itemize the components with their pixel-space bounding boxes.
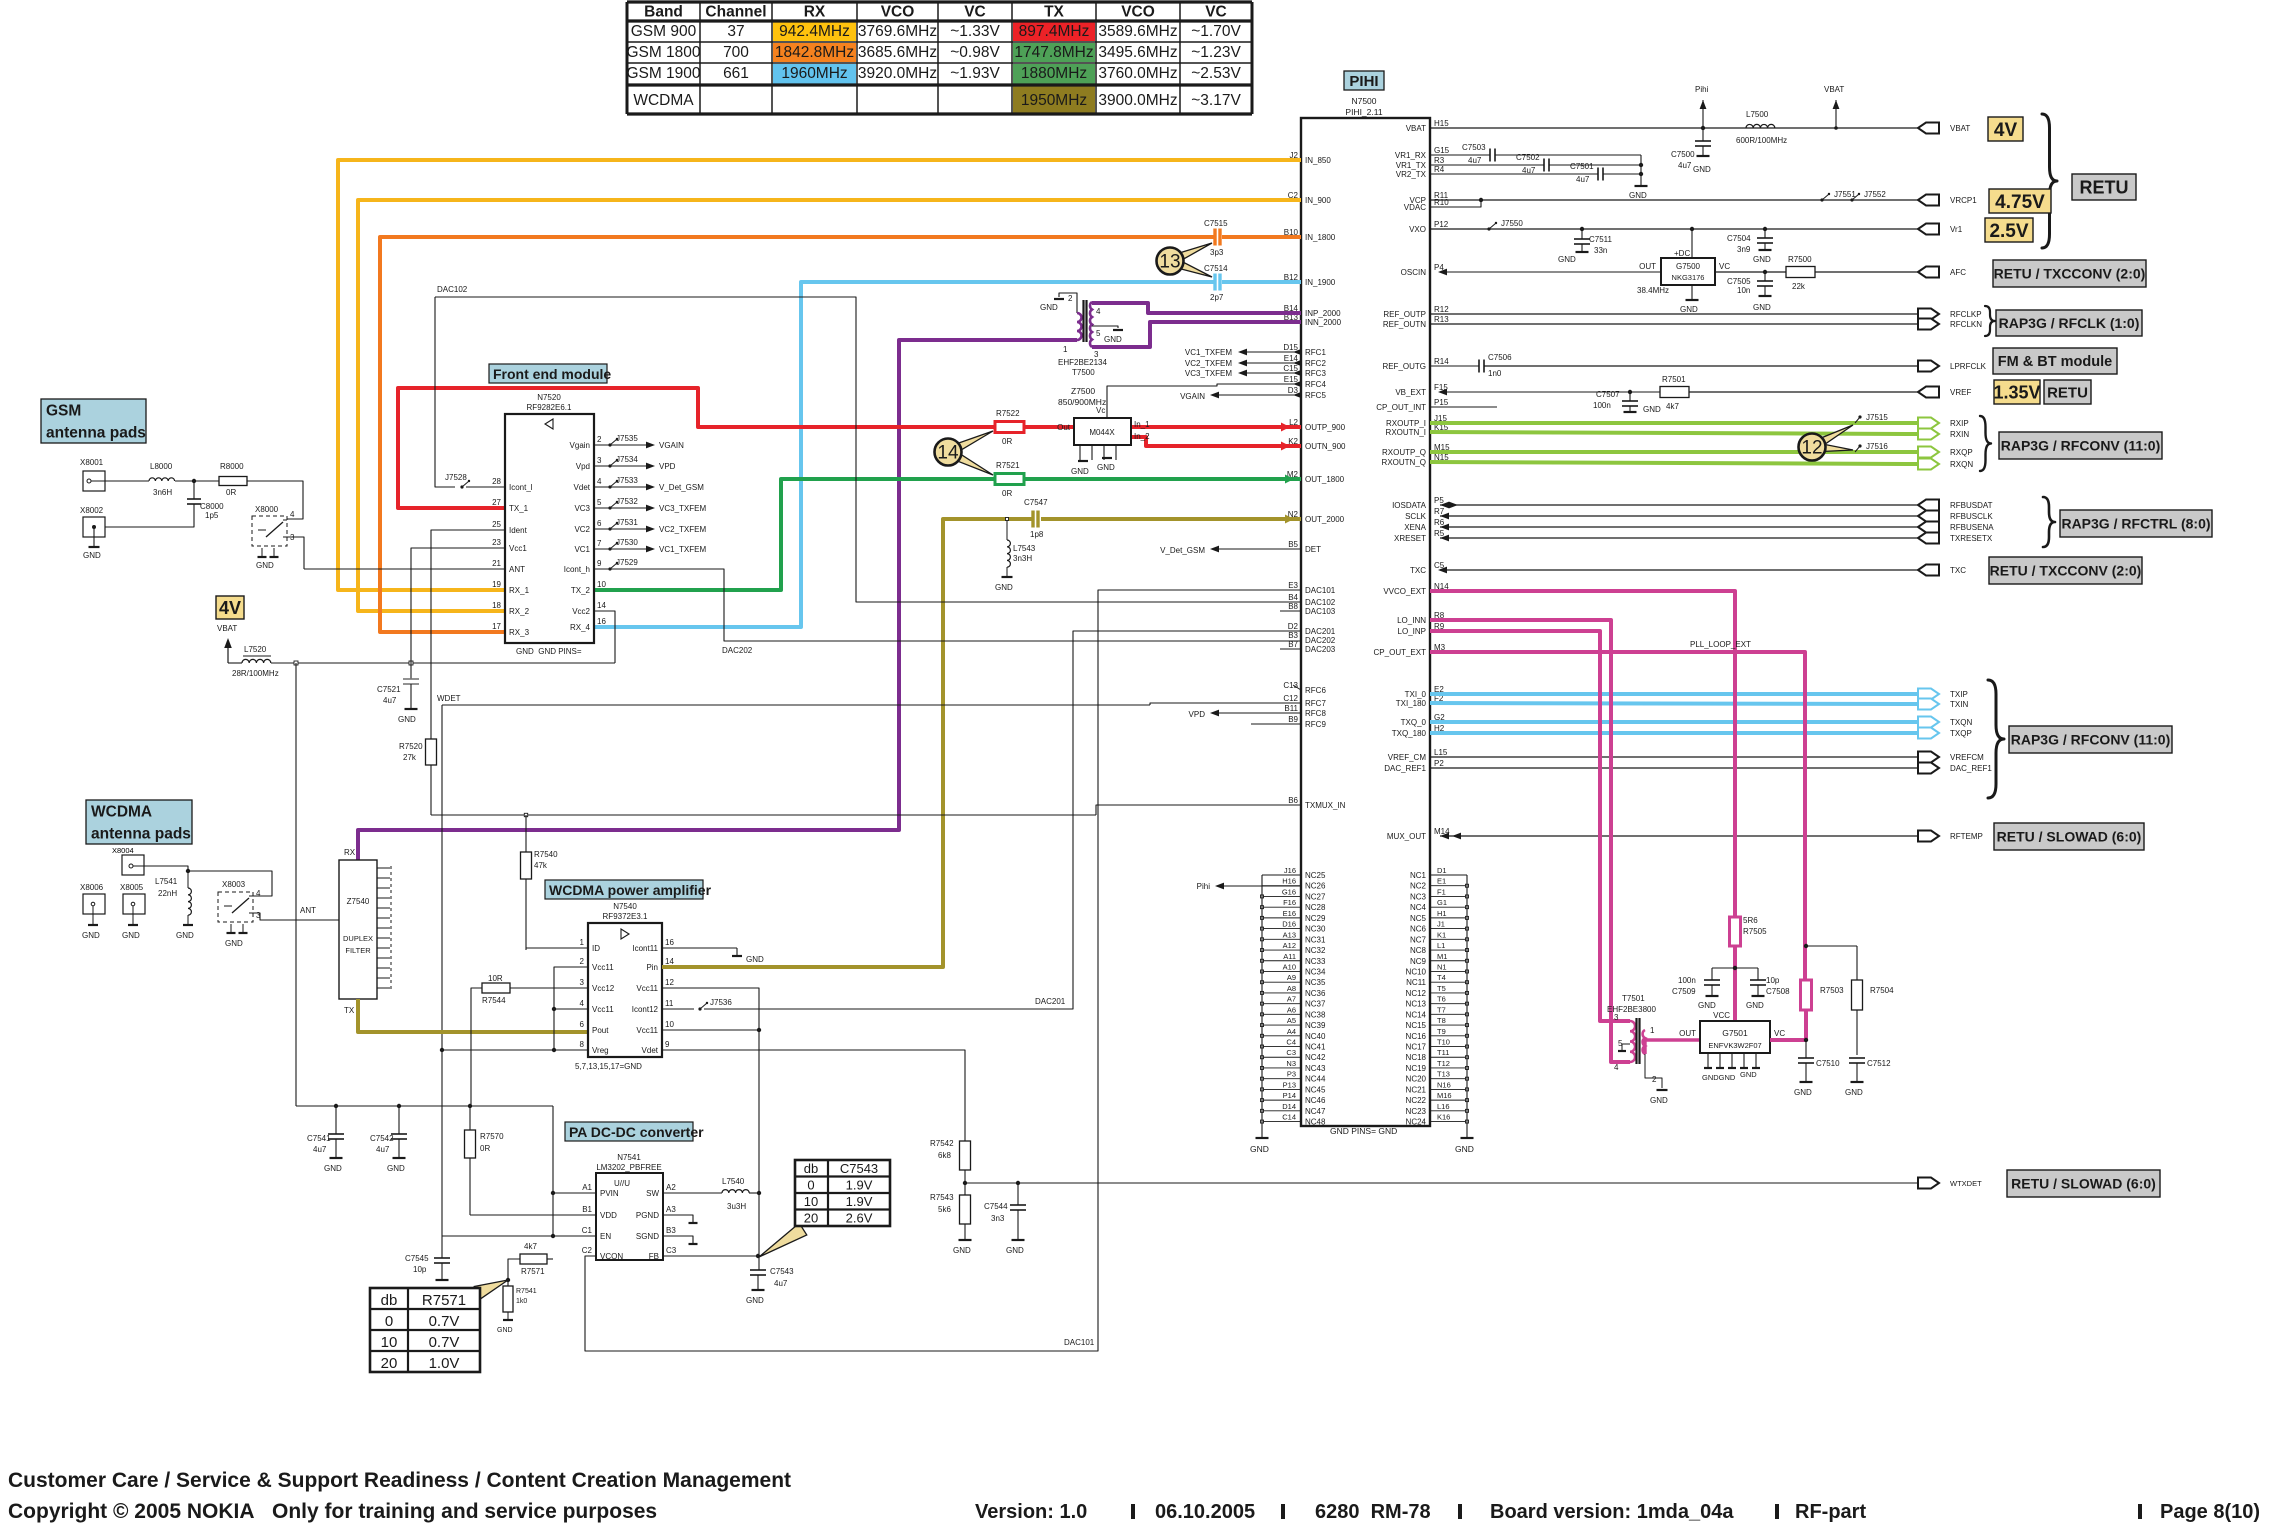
svg-text:Version: 1.0: Version: 1.0 <box>975 1501 1087 1523</box>
svg-text:OUT: OUT <box>1679 1029 1696 1038</box>
svg-text:IN_1800: IN_1800 <box>1305 233 1336 242</box>
stub DAC203 <box>1280 648 1301 650</box>
svg-text:9: 9 <box>665 1040 670 1049</box>
svg-text:GND: GND <box>1740 1070 1757 1079</box>
capacitor C7511 <box>1558 227 1613 264</box>
svg-text:J7536: J7536 <box>710 998 732 1007</box>
wire VC pink <box>1770 1010 1806 1040</box>
svg-text:NC1: NC1 <box>1410 871 1427 880</box>
pad X8001 <box>80 458 149 491</box>
svg-text:NC47: NC47 <box>1305 1107 1326 1116</box>
wire WDET / RFC7 <box>437 694 1301 1236</box>
N7520 left pins <box>492 477 533 637</box>
svg-text:WCDMA power amplifier: WCDMA power amplifier <box>549 882 712 898</box>
note 13 callout <box>1157 243 1213 277</box>
svg-text:Pihi: Pihi <box>1197 882 1211 891</box>
stub RFC6 tick <box>1293 685 1301 690</box>
svg-text:K1: K1 <box>1437 930 1446 939</box>
svg-text:db: db <box>381 1292 398 1309</box>
svg-text:E3: E3 <box>1288 581 1298 590</box>
svg-text:Channel: Channel <box>705 4 766 21</box>
svg-text:OUTP_900: OUTP_900 <box>1305 423 1346 432</box>
svg-text:1n0: 1n0 <box>1488 369 1502 378</box>
svg-text:B1: B1 <box>582 1205 592 1214</box>
resistor R7501 4k7 <box>1438 375 1918 411</box>
svg-text:20: 20 <box>804 1211 818 1226</box>
svg-text:M1: M1 <box>1437 952 1447 961</box>
svg-text:SW: SW <box>646 1189 659 1198</box>
note 14 callout <box>935 431 994 475</box>
wire Ident down <box>431 530 505 739</box>
inductor L7500 <box>1736 110 1787 145</box>
svg-text:4k7: 4k7 <box>1666 402 1679 411</box>
transformer T7500 EHF2BE2134 <box>1040 293 1123 377</box>
svg-text:D15: D15 <box>1283 343 1298 352</box>
oscillator G7500 NKG3176 <box>1637 227 1730 314</box>
svg-text:A5: A5 <box>1287 1016 1296 1025</box>
svg-text:RETU / SLOWAD (6:0): RETU / SLOWAD (6:0) <box>2011 1176 2156 1192</box>
svg-text:DAC203: DAC203 <box>1305 645 1336 654</box>
svg-text:GND: GND <box>1693 165 1711 174</box>
svg-text:FB: FB <box>649 1252 659 1261</box>
svg-text:FILTER: FILTER <box>345 946 371 955</box>
inductor L7543 3n3H <box>995 518 1036 593</box>
svg-text:NC18: NC18 <box>1406 1053 1427 1062</box>
svg-text:GND: GND <box>82 931 100 940</box>
svg-text:L15: L15 <box>1434 748 1448 757</box>
connector AFC <box>1918 267 1966 278</box>
capacitor C7506 <box>1430 353 1918 378</box>
svg-text:Out: Out <box>1057 423 1071 432</box>
svg-text:PIHI_2.11: PIHI_2.11 <box>1345 107 1382 117</box>
svg-text:100n: 100n <box>1678 976 1696 985</box>
connector VRCP1 <box>1430 190 1977 206</box>
svg-text:NC6: NC6 <box>1410 925 1427 934</box>
svg-text:M16: M16 <box>1437 1091 1452 1100</box>
svg-text:K16: K16 <box>1437 1113 1450 1122</box>
svg-text:GND: GND <box>398 715 416 724</box>
svg-text:TXIP: TXIP <box>1950 690 1968 699</box>
capacitor C7545 10p <box>405 1236 450 1295</box>
svg-text:NC3: NC3 <box>1410 892 1427 901</box>
label RAP3G / RFCTRL (8:0) <box>2060 510 2212 537</box>
svg-text:GND: GND <box>1650 1096 1668 1105</box>
svg-text:DUPLEX: DUPLEX <box>343 934 373 943</box>
svg-text:RXIP: RXIP <box>1950 419 1969 428</box>
wire purple T7500 to duplexer RX <box>358 340 1077 860</box>
svg-text:R8000: R8000 <box>220 462 244 471</box>
svg-text:NC40: NC40 <box>1305 1032 1326 1041</box>
svg-text:25: 25 <box>492 520 501 529</box>
value box 4V <box>1988 117 2023 141</box>
svg-text:GND: GND <box>83 551 101 560</box>
svg-text:RFC1: RFC1 <box>1305 348 1326 357</box>
wire DAC202 net <box>594 569 1301 655</box>
wire RXOUTN_I <box>1430 432 1918 434</box>
frequency table <box>626 2 1252 114</box>
svg-text:REF_OUTG: REF_OUTG <box>1382 362 1426 371</box>
wire Vreg <box>440 1048 588 1052</box>
svg-text:ID: ID <box>592 944 600 953</box>
svg-text:10: 10 <box>665 1020 674 1029</box>
capacitor C7507 <box>1593 390 1661 414</box>
capacitor C7501 <box>1430 155 1648 200</box>
table db R7571 <box>370 1280 508 1372</box>
gnd PGND <box>663 1215 698 1223</box>
svg-text:Ident: Ident <box>509 526 528 535</box>
label WCDMA antenna pads <box>86 800 192 844</box>
svg-text:T10: T10 <box>1437 1038 1450 1047</box>
wire R7520 bottom rail <box>431 805 1301 817</box>
svg-text:1p8: 1p8 <box>1030 530 1044 539</box>
svg-text:0.7V: 0.7V <box>429 1334 460 1351</box>
svg-text:X8006: X8006 <box>80 883 104 892</box>
svg-text:6: 6 <box>597 519 602 528</box>
svg-text:~2.53V: ~2.53V <box>1191 65 1241 82</box>
vco G7501 ENFVK3W2F07 <box>1679 1021 1785 1082</box>
label Front end module <box>489 364 611 383</box>
svg-text:A10: A10 <box>1283 962 1296 971</box>
N7520 right pins <box>564 435 607 632</box>
svg-text:2: 2 <box>1652 1075 1657 1084</box>
wire PVIN <box>553 1192 596 1194</box>
svg-text:GND: GND <box>1680 305 1698 314</box>
svg-text:NC45: NC45 <box>1305 1085 1326 1094</box>
svg-text:X8000: X8000 <box>255 505 279 514</box>
IC N7500 PIHI_2.11 <box>1301 96 1430 1126</box>
svg-text:A1: A1 <box>582 1183 592 1192</box>
svg-text:DAC201: DAC201 <box>1305 627 1336 636</box>
svg-text:Vcc11: Vcc11 <box>592 1005 614 1014</box>
svg-text:VPD: VPD <box>1189 710 1206 719</box>
svg-text:TX: TX <box>1044 4 1064 21</box>
PIHI left pin labels <box>1283 151 1346 810</box>
svg-text:C3: C3 <box>1286 1048 1296 1057</box>
svg-text:GND: GND <box>1097 463 1115 472</box>
svg-text:R7: R7 <box>1434 507 1445 516</box>
svg-text:C7510: C7510 <box>1816 1059 1840 1068</box>
svg-text:Page 8(10): Page 8(10) <box>2160 1501 2260 1523</box>
resistor R7571 4k7 <box>506 1242 553 1286</box>
svg-text:VCO: VCO <box>881 4 915 21</box>
svg-text:T8: T8 <box>1437 1016 1446 1025</box>
svg-text:VC1: VC1 <box>574 545 590 554</box>
label FM & BT module <box>1993 348 2117 374</box>
svg-text:NC48: NC48 <box>1305 1118 1326 1127</box>
svg-text:CP_OUT_INT: CP_OUT_INT <box>1376 403 1426 412</box>
svg-text:GND: GND <box>497 1327 513 1334</box>
svg-text:4u7: 4u7 <box>774 1279 788 1288</box>
svg-text:L7540: L7540 <box>722 1177 745 1186</box>
wire CP_OUT_EXT pink <box>1430 652 1805 980</box>
svg-text:C7515: C7515 <box>1204 219 1228 228</box>
svg-text:VRCP1: VRCP1 <box>1950 196 1977 205</box>
table db C7543 <box>759 1160 890 1257</box>
resistor R7543 5k6 <box>930 1183 972 1255</box>
svg-text:V_Det_GSM: V_Det_GSM <box>659 483 704 492</box>
svg-text:NC10: NC10 <box>1406 967 1427 976</box>
svg-text:3: 3 <box>1614 1013 1619 1022</box>
svg-text:TXIN: TXIN <box>1950 700 1968 709</box>
svg-text:897.4MHz: 897.4MHz <box>1019 23 1090 40</box>
svg-text:RFC2: RFC2 <box>1305 359 1326 368</box>
svg-text:T7500: T7500 <box>1072 368 1095 377</box>
svg-text:DET: DET <box>1305 545 1321 554</box>
svg-text:NC4: NC4 <box>1410 903 1427 912</box>
svg-text:VB_EXT: VB_EXT <box>1395 388 1426 397</box>
svg-text:GND: GND <box>1250 1144 1269 1154</box>
svg-text:2.5V: 2.5V <box>1989 221 2028 242</box>
note 12 callout <box>1799 425 1854 461</box>
svg-text:P14: P14 <box>1283 1091 1296 1100</box>
svg-text:OUTN_900: OUTN_900 <box>1305 442 1346 451</box>
svg-text:P5: P5 <box>1434 496 1444 505</box>
svg-text:RFC6: RFC6 <box>1305 686 1326 695</box>
svg-text:G7501: G7501 <box>1722 1028 1748 1038</box>
svg-text:1p5: 1p5 <box>205 511 219 520</box>
resistor R7544 10R <box>471 974 588 1106</box>
capacitor C7504 <box>1727 227 1773 264</box>
wire INP_2000 purple <box>1092 303 1301 313</box>
capacitor C7515 <box>1204 219 1228 257</box>
svg-text:NC5: NC5 <box>1410 914 1427 923</box>
value box 4.75V <box>1989 189 2051 213</box>
svg-text:TXQ_0: TXQ_0 <box>1401 718 1427 727</box>
svg-text:INN_2000: INN_2000 <box>1305 318 1342 327</box>
svg-text:22nH: 22nH <box>158 889 177 898</box>
wire LO_INN pink <box>1430 620 1630 1062</box>
svg-text:RF-part: RF-part <box>1795 1501 1866 1523</box>
svg-text:661: 661 <box>723 65 749 82</box>
VBAT stub up <box>1824 85 1844 130</box>
svg-text:X8005: X8005 <box>120 883 144 892</box>
svg-text:ENFVK3W2F07: ENFVK3W2F07 <box>1708 1041 1761 1050</box>
wire WTXDET <box>965 1182 1918 1184</box>
svg-text:1.9V: 1.9V <box>846 1178 873 1193</box>
svg-text:WTXDET: WTXDET <box>1950 1179 1982 1188</box>
svg-text:FM & BT module: FM & BT module <box>1998 354 2112 370</box>
svg-text:DAC103: DAC103 <box>1305 607 1336 616</box>
svg-text:RFBUSENA: RFBUSENA <box>1950 523 1994 532</box>
switch X8000 <box>252 505 304 570</box>
svg-text:LPRFCLK: LPRFCLK <box>1950 362 1987 371</box>
svg-text:C3: C3 <box>666 1246 677 1255</box>
svg-text:RXOUTN_I: RXOUTN_I <box>1386 428 1426 437</box>
svg-text:NC43: NC43 <box>1305 1064 1326 1073</box>
svg-text:X8003: X8003 <box>222 880 246 889</box>
svg-text:XRESET: XRESET <box>1394 534 1426 543</box>
svg-text:4.75V: 4.75V <box>1995 192 2045 213</box>
resistor R7505 5R6 <box>1730 916 1768 946</box>
svg-text:LM3202_PBFREE: LM3202_PBFREE <box>596 1163 661 1172</box>
svg-text:2p7: 2p7 <box>1210 293 1224 302</box>
svg-text:VXO: VXO <box>1409 225 1426 234</box>
svg-text:GSM: GSM <box>46 403 81 420</box>
svg-text:GNDGND: GNDGND <box>1702 1073 1736 1082</box>
capacitor C7544 3n3 <box>984 1181 1026 1255</box>
svg-text:F1: F1 <box>1437 887 1446 896</box>
svg-text:Vr1: Vr1 <box>1950 225 1963 234</box>
label RETU / TXCCONV (2:0) <box>1993 260 2146 287</box>
svg-text:4u7: 4u7 <box>1576 175 1590 184</box>
wire Pin14 olive <box>662 965 943 969</box>
inductor L7541 22nH <box>155 871 194 940</box>
svg-text:3n3: 3n3 <box>991 1214 1005 1223</box>
svg-text:0R: 0R <box>1002 437 1012 446</box>
label RETU <box>2072 174 2136 200</box>
svg-text:C14: C14 <box>1282 1113 1296 1122</box>
svg-text:RXQP: RXQP <box>1950 448 1973 457</box>
svg-text:antenna pads: antenna pads <box>46 425 146 442</box>
svg-text:NC44: NC44 <box>1305 1075 1326 1084</box>
gnd Icont11 <box>662 948 764 964</box>
wire VDAC to VCP <box>1430 198 1483 207</box>
svg-text:27k: 27k <box>403 753 417 762</box>
svg-text:VC: VC <box>964 4 986 21</box>
svg-text:NC24: NC24 <box>1406 1118 1427 1127</box>
wire OUT_2000 olive <box>662 515 1301 968</box>
svg-text:TXI_180: TXI_180 <box>1396 699 1427 708</box>
svg-text:6: 6 <box>580 1020 585 1029</box>
svg-text:5k6: 5k6 <box>938 1205 951 1214</box>
svg-text:R14: R14 <box>1434 357 1449 366</box>
wire DAC102 net <box>435 285 1301 602</box>
svg-text:D1: D1 <box>1437 866 1447 875</box>
svg-text:T4: T4 <box>1437 973 1446 982</box>
svg-text:12: 12 <box>1801 438 1822 459</box>
svg-text:VR1_TX: VR1_TX <box>1396 161 1427 170</box>
svg-text:C7542: C7542 <box>370 1134 394 1143</box>
svg-text:~1.70V: ~1.70V <box>1191 23 1241 40</box>
svg-text:RXQN: RXQN <box>1950 460 1973 469</box>
svg-text:J7550: J7550 <box>1501 219 1523 228</box>
svg-text:C7544: C7544 <box>984 1202 1008 1211</box>
svg-text:RAP3G / RFCONV (11:0): RAP3G / RFCONV (11:0) <box>2011 732 2170 748</box>
wire TXQ_0 <box>1430 720 1918 724</box>
svg-text:N3: N3 <box>1286 1059 1296 1068</box>
wire RXOUTN_Q <box>1430 462 1918 464</box>
svg-text:VC3_TXFEM: VC3_TXFEM <box>659 504 706 513</box>
svg-text:RFC8: RFC8 <box>1305 709 1326 718</box>
svg-text:3920.0MHz: 3920.0MHz <box>858 65 937 82</box>
svg-text:VCON: VCON <box>600 1252 623 1261</box>
svg-text:R7544: R7544 <box>482 996 506 1005</box>
svg-text:VC1_TXFEM: VC1_TXFEM <box>1185 348 1232 357</box>
caps C7509 C7508 rail <box>1672 966 1790 1020</box>
connector LPRFCLK <box>1918 361 1987 372</box>
svg-text:12: 12 <box>665 978 674 987</box>
svg-text:VREF_CM: VREF_CM <box>1388 753 1427 762</box>
svg-text:2: 2 <box>580 957 585 966</box>
svg-text:NC32: NC32 <box>1305 946 1326 955</box>
svg-text:J1: J1 <box>1437 920 1445 929</box>
svg-text:IN_850: IN_850 <box>1305 156 1331 165</box>
svg-text:3n3H: 3n3H <box>1013 554 1032 563</box>
wire Vcc11-12 down <box>662 988 759 1193</box>
svg-text:RETU / SLOWAD (6:0): RETU / SLOWAD (6:0) <box>1997 829 2142 845</box>
svg-text:C7500: C7500 <box>1671 150 1695 159</box>
svg-text:33n: 33n <box>1594 246 1607 255</box>
svg-text:10: 10 <box>597 580 606 589</box>
svg-text:NC38: NC38 <box>1305 1010 1326 1019</box>
svg-text:IN_1900: IN_1900 <box>1305 278 1336 287</box>
svg-text:37: 37 <box>727 23 744 40</box>
svg-text:F16: F16 <box>1283 898 1296 907</box>
svg-text:3760.0MHz: 3760.0MHz <box>1098 65 1177 82</box>
wire RXOUTP_Q <box>1430 450 1918 454</box>
svg-text:RFBUSDAT: RFBUSDAT <box>1950 501 1993 510</box>
svg-text:R6: R6 <box>1434 518 1445 527</box>
svg-text:V_Det_GSM: V_Det_GSM <box>1160 546 1205 555</box>
svg-text:RX_4: RX_4 <box>570 623 591 632</box>
svg-text:VREFCM: VREFCM <box>1950 753 1984 762</box>
svg-text:3n9: 3n9 <box>1737 245 1751 254</box>
svg-text:VC1_TXFEM: VC1_TXFEM <box>659 545 706 554</box>
svg-text:Vcc2: Vcc2 <box>572 607 590 616</box>
svg-text:NC12: NC12 <box>1406 989 1427 998</box>
svg-text:DAC101: DAC101 <box>1064 1338 1095 1347</box>
svg-text:3685.6MHz: 3685.6MHz <box>858 44 937 61</box>
svg-text:RETU / TXCCONV (2:0): RETU / TXCCONV (2:0) <box>1990 563 2142 579</box>
svg-text:C2: C2 <box>582 1246 593 1255</box>
svg-text:RF9282E6.1: RF9282E6.1 <box>527 403 572 412</box>
svg-text:J7551: J7551 <box>1834 190 1856 199</box>
svg-text:GSM 1800: GSM 1800 <box>626 44 700 61</box>
svg-text:17: 17 <box>492 622 501 631</box>
svg-text:6280 RM-78: 6280 RM-78 <box>1315 1501 1431 1523</box>
svg-text:Vcc12: Vcc12 <box>592 984 615 993</box>
svg-text:Vdet: Vdet <box>642 1046 659 1055</box>
svg-text:L7543: L7543 <box>1013 544 1036 553</box>
svg-text:C15: C15 <box>1283 364 1298 373</box>
svg-text:GND: GND <box>995 583 1013 592</box>
svg-text:RFCLKN: RFCLKN <box>1950 320 1982 329</box>
Pihi arrow at NC26 <box>1197 882 1301 891</box>
svg-text:AFC: AFC <box>1950 268 1966 277</box>
svg-text:RFBUSCLK: RFBUSCLK <box>1950 512 1993 521</box>
svg-text:DAC102: DAC102 <box>1305 598 1336 607</box>
svg-text:DAC201: DAC201 <box>1035 997 1066 1006</box>
arrow VPD (RFC8) <box>1189 710 1301 719</box>
wire Vdet <box>662 1050 965 1141</box>
svg-text:47k: 47k <box>534 861 548 870</box>
svg-text:C12: C12 <box>1283 694 1298 703</box>
svg-text:RXOUTN_Q: RXOUTN_Q <box>1382 458 1426 467</box>
svg-text:N7520: N7520 <box>537 393 561 402</box>
svg-text:antenna pads: antenna pads <box>91 826 191 843</box>
capacitor C7512 <box>1845 1058 1891 1097</box>
svg-text:1.0V: 1.0V <box>429 1355 460 1372</box>
svg-text:RFTEMP: RFTEMP <box>1950 832 1983 841</box>
svg-text:0R: 0R <box>1002 489 1012 498</box>
svg-text:R7570: R7570 <box>480 1132 504 1141</box>
svg-text:B11: B11 <box>1284 704 1298 713</box>
wire EN <box>442 1235 596 1237</box>
wire IN_850 yellow <box>338 160 1301 590</box>
svg-text:SGND: SGND <box>636 1232 659 1241</box>
svg-text:Vpd: Vpd <box>576 462 590 471</box>
svg-text:DAC101: DAC101 <box>1305 586 1336 595</box>
svg-text:NC14: NC14 <box>1406 1010 1427 1019</box>
svg-text:J7534: J7534 <box>616 455 638 464</box>
svg-text:INP_2000: INP_2000 <box>1305 309 1341 318</box>
arrow V_Det_GSM <box>1160 546 1301 555</box>
svg-text:R7521: R7521 <box>996 461 1020 470</box>
svg-text:VPD: VPD <box>659 462 676 471</box>
svg-text:C7502: C7502 <box>1516 153 1540 162</box>
svg-text:OSCIN: OSCIN <box>1401 268 1427 277</box>
svg-text:J7530: J7530 <box>616 538 638 547</box>
